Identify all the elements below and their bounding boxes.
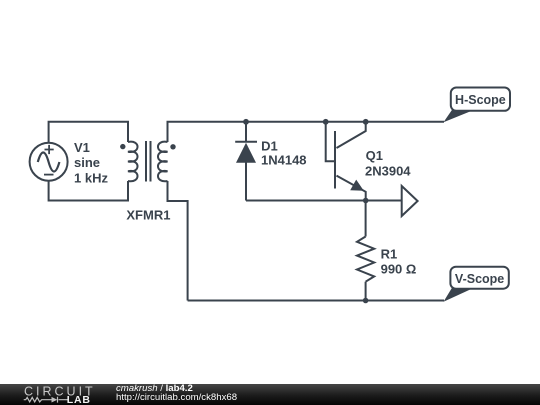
XFMR1 primary phase dot: [120, 144, 125, 149]
XFMR1 secondary phase dot: [170, 144, 175, 149]
svg-text:V1: V1: [74, 140, 90, 155]
wire emitter node to probe: [366, 200, 401, 202]
svg-text:1N4148: 1N4148: [261, 153, 307, 168]
svg-text:Q1: Q1: [366, 148, 383, 163]
flag V-Scope: [444, 267, 509, 302]
CircuitLab logo: [0, 384, 100, 405]
transistor Q1: [326, 122, 366, 201]
svg-text:LAB: LAB: [67, 394, 91, 405]
wire secondary top rail: [168, 122, 445, 142]
svg-text:R1: R1: [381, 246, 398, 261]
voltage source V1: [30, 143, 68, 181]
node junction dot diode top: [243, 119, 249, 125]
wire primary top: V1 plus terminal to XFMR1 primary: [49, 122, 128, 142]
resistor R1: [357, 201, 374, 301]
XFMR1 secondary winding: [158, 142, 168, 182]
wire secondary bottom: XFMR1 to bottom rail: [168, 181, 188, 301]
wire bottom rail to V-Scope: [188, 300, 444, 302]
wire mid rail: diode bottom to emitter node: [246, 200, 366, 202]
svg-text:H-Scope: H-Scope: [455, 93, 506, 107]
node junction dot base top: [323, 119, 329, 125]
svg-text:1 kHz: 1 kHz: [74, 171, 108, 186]
flag H-Scope: [444, 88, 511, 123]
node junction dot emitter rail: [363, 198, 369, 204]
diode D1: [235, 122, 257, 201]
wire primary bottom: V1 minus terminal to XFMR1 primary: [49, 181, 128, 201]
svg-text:XFMR1: XFMR1: [126, 208, 170, 223]
svg-text:sine: sine: [74, 155, 100, 170]
svg-text:D1: D1: [261, 139, 278, 154]
probe output terminal triangle: [402, 186, 418, 216]
transformer XFMR1: [120, 141, 176, 182]
svg-text:990 Ω: 990 Ω: [381, 262, 417, 277]
svg-text:V-Scope: V-Scope: [455, 272, 504, 286]
svg-text:2N3904: 2N3904: [365, 164, 411, 179]
footer credit text: [115, 383, 117, 385]
node junction dot resistor bottom: [363, 298, 369, 304]
XFMR1 core: [146, 141, 151, 182]
footer bar: [0, 384, 540, 405]
node junction dot collector top: [363, 119, 369, 125]
XFMR1 primary winding: [128, 142, 138, 182]
logo squiggle resistor-diode: [24, 397, 68, 403]
